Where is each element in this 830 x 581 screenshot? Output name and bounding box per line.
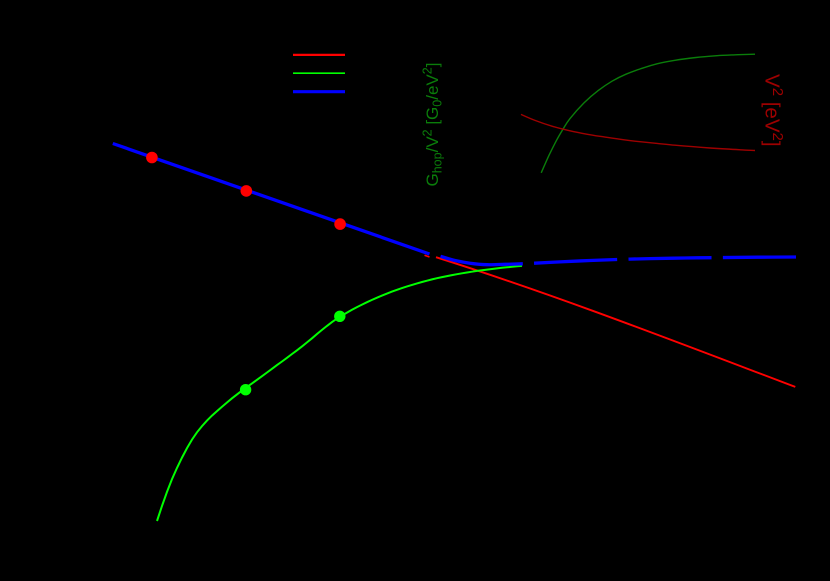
main blue dashed crossover curve xyxy=(441,256,797,264)
inset dark red curve xyxy=(521,114,755,150)
main green hopping curve xyxy=(157,266,522,521)
green data point 2 xyxy=(334,311,345,322)
legend green line sample xyxy=(293,72,345,74)
inset green curve xyxy=(541,54,755,173)
green data point 1 xyxy=(240,384,251,395)
main blue solid asymptote line xyxy=(113,144,430,255)
legend blue line sample xyxy=(293,90,345,93)
red data point 2 xyxy=(241,185,253,197)
main red power-law line xyxy=(436,257,795,387)
red data point 3 xyxy=(334,218,346,230)
red line sliver under blue asymptote end xyxy=(425,255,430,257)
legend red line sample xyxy=(293,54,345,56)
red data point 1 xyxy=(146,152,158,164)
